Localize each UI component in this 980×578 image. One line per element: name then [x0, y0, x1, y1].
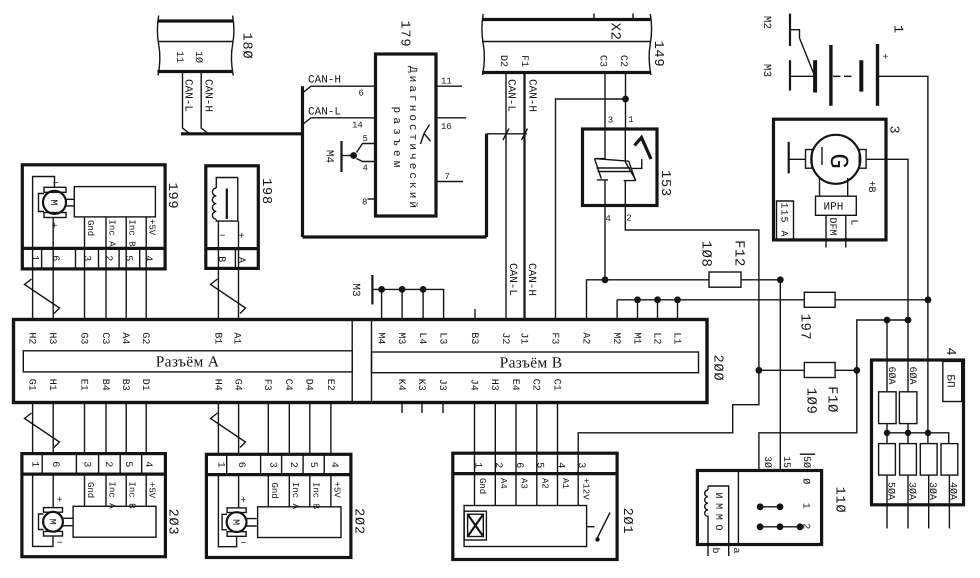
wire 202 pin1 to motor minus [218, 475, 236, 547]
wire C2 to relay pin1 [625, 73, 627, 129]
svg-text:M3: M3 [349, 283, 361, 296]
svg-text:4: 4 [142, 461, 153, 467]
svg-text:3ØA: 3ØA [905, 482, 916, 500]
svg-text:5: 5 [363, 134, 368, 144]
wire 201 pin2 [494, 474, 496, 506]
wire A4 to 199 pin5 [125, 269, 127, 320]
wire 110 pin b [707, 538, 709, 557]
immobilizer coil IMMO [705, 486, 729, 538]
svg-text:198: 198 [258, 178, 273, 205]
svg-text:18Ø: 18Ø [238, 33, 253, 60]
svg-text:H3: H3 [488, 379, 499, 391]
junction 197 battery feeder [925, 296, 932, 303]
pin 1 of 153 [628, 115, 633, 125]
svg-text:3: 3 [81, 461, 92, 467]
svg-text:A4: A4 [498, 478, 508, 489]
svg-text:M3: M3 [395, 332, 406, 344]
label 1 battery [889, 25, 904, 34]
wire M3 to battery [790, 75, 815, 77]
svg-text:Разъём В: Разъём В [500, 354, 563, 371]
svg-text:2: 2 [287, 462, 298, 468]
wire 179 pin6 CAN-H [303, 86, 376, 93]
svg-text:4: 4 [554, 462, 565, 468]
wire 179 pin14 CAN-L [303, 118, 376, 125]
label 200 [709, 355, 724, 382]
wire CAN trunk vertical left [301, 86, 304, 237]
svg-text:149: 149 [650, 41, 665, 68]
svg-text:L3: L3 [437, 332, 448, 344]
svg-text:3: 3 [608, 116, 613, 126]
wire B1 to 198 pinB [217, 268, 219, 319]
label +5V 203 [147, 482, 157, 499]
regulator IRN [816, 178, 857, 215]
label 149 [650, 41, 665, 68]
svg-text:C2: C2 [617, 55, 628, 67]
wire M2 bus corner [617, 300, 677, 320]
wire L stub [845, 215, 847, 247]
svg-text:A2: A2 [579, 332, 590, 344]
svg-text:4: 4 [363, 164, 368, 174]
label +5V 199 [147, 219, 157, 236]
svg-text:197: 197 [797, 314, 813, 341]
wire F3 to 202 pin3 [267, 403, 269, 455]
wire M3 down [401, 289, 403, 319]
svg-text:J4: J4 [467, 379, 478, 391]
label 202 [350, 508, 365, 535]
pin numbers 202 [214, 462, 339, 468]
pin letters 198 [215, 256, 246, 263]
svg-text:6: 6 [49, 255, 60, 261]
wire 201 pin1 [474, 474, 476, 506]
twisted pair mark 199 [25, 279, 60, 314]
wire D1 to 203 pin4 [145, 403, 147, 454]
wire 203 pin6 to motor plus [52, 474, 54, 507]
svg-text:1: 1 [799, 503, 810, 509]
svg-text:M3: M3 [760, 64, 772, 77]
wire H3 to 201 pin2 [494, 403, 496, 454]
svg-text:153: 153 [657, 170, 672, 197]
label BP box [943, 361, 962, 401]
wire H4 to 202 pin1 [217, 403, 219, 455]
pin 2 of 153 [626, 214, 631, 224]
wire DFM stub [825, 215, 827, 247]
diagnostic connector 179 [376, 54, 437, 216]
svg-text:E2: E2 [324, 379, 335, 391]
dashboard 201 box [453, 453, 617, 559]
svg-text:4: 4 [606, 214, 611, 224]
pin 16 of 179 [441, 122, 452, 132]
label 199 [164, 183, 179, 210]
pin 5 of 179 [363, 134, 368, 144]
svg-text:A3: A3 [519, 478, 529, 489]
label A4 201 [498, 478, 508, 489]
wire 199 motor minus to pin1 [33, 177, 55, 269]
svg-text:6: 6 [513, 462, 524, 468]
wire CAN-L D2 to J2 [503, 73, 509, 321]
twisted pair mark 202 [211, 413, 246, 448]
svg-text:7: 7 [445, 172, 450, 182]
svg-text:3ØA: 3ØA [926, 482, 937, 500]
svg-text:1: 1 [471, 462, 482, 468]
wire junction to A2 [587, 280, 606, 321]
wire G2 to 199 pin4 [145, 269, 147, 320]
svg-text:3Ø: 3Ø [761, 456, 772, 468]
svg-text:6: 6 [359, 89, 364, 99]
svg-text:G4: G4 [232, 379, 243, 391]
svg-text:M: M [47, 199, 58, 205]
stub J3 [442, 403, 444, 414]
label Inc A 199 [106, 220, 116, 248]
svg-text:2Ø3: 2Ø3 [164, 509, 179, 536]
svg-text:1Ø: 1Ø [192, 51, 203, 63]
wire 179 pin11 stub [436, 85, 462, 87]
label A1 201 [560, 478, 570, 489]
svg-text:+: + [240, 496, 246, 507]
junction C2 branch [622, 96, 629, 103]
label Inc B 199 [127, 220, 137, 248]
label 3 generator [885, 126, 900, 135]
wire CAN trunk from 180 [181, 132, 303, 135]
svg-text:H1: H1 [46, 379, 57, 391]
svg-text:2Ø1: 2Ø1 [619, 508, 634, 535]
svg-text:2ØØ: 2ØØ [709, 355, 724, 382]
label A3 201 [519, 478, 529, 489]
fuse block 4 box [872, 360, 964, 505]
wire 202 pin6 to motor plus [238, 475, 240, 508]
svg-text:5Ø: 5Ø [800, 456, 811, 468]
svg-text:8: 8 [362, 198, 367, 208]
svg-text:L: L [848, 219, 859, 225]
svg-text:M2: M2 [760, 16, 772, 29]
stub B3 top [474, 309, 476, 320]
svg-text:−: − [220, 232, 226, 243]
wire H3 to 199 pin6 [52, 269, 54, 320]
label CAN-L vertical under 180 [182, 79, 194, 112]
pin 15 of 110 [780, 456, 791, 468]
twisted pair mark 198 [211, 279, 246, 314]
wire 199 IncB pin5 [125, 217, 127, 269]
wire 179 pin7 stub [436, 181, 463, 183]
fuse 30A no2 [920, 444, 937, 529]
svg-text:1: 1 [628, 115, 633, 125]
label 153 [657, 170, 672, 197]
wire H2 to 199 pin1 [32, 269, 34, 320]
svg-text:Ø: Ø [799, 478, 810, 484]
wire 201 pin6 [515, 474, 517, 506]
controller block in 203 [73, 506, 156, 537]
wire relay pin4 to junction [604, 205, 606, 280]
relay 153 [583, 129, 658, 206]
svg-text:Gnd: Gnd [85, 220, 95, 236]
svg-text:+: + [57, 496, 63, 507]
svg-text:Inc A: Inc A [106, 220, 116, 248]
svg-text:1Ø8: 1Ø8 [697, 241, 713, 268]
display block in 201 [464, 506, 586, 547]
svg-text:−: − [57, 539, 63, 550]
ground M2 [760, 14, 790, 46]
fuse 197 [797, 292, 928, 340]
wire 179 pin8 stub [368, 198, 376, 200]
motor M of 203 [39, 496, 74, 550]
pins bottom row B [395, 379, 562, 391]
indicator lamp X in 201 [464, 511, 486, 540]
pin 3 of 153 [608, 116, 613, 126]
svg-text:J1: J1 [517, 332, 528, 344]
junction M3 [399, 286, 406, 293]
svg-text:E1: E1 [77, 379, 88, 391]
svg-text:G3: G3 [77, 332, 88, 344]
stub K4 [401, 403, 403, 414]
svg-text:2: 2 [626, 214, 631, 224]
svg-text:CAN-L: CAN-L [506, 263, 518, 296]
svg-text:11Ø: 11Ø [831, 487, 846, 514]
svg-text:2: 2 [102, 461, 113, 467]
svg-text:H4: H4 [211, 379, 222, 391]
switch symbol in 201 [587, 513, 610, 542]
svg-text:H2: H2 [26, 332, 37, 344]
junction L2 [654, 296, 661, 303]
svg-text:B3: B3 [119, 379, 130, 391]
fuse 50A [879, 444, 896, 529]
wire 202 pin5 IncB [309, 475, 311, 507]
pin 4 of 179 [363, 164, 368, 174]
label 198 [258, 178, 273, 205]
svg-text:Gnd: Gnd [269, 483, 279, 499]
wire D4 to 202 pin5 [309, 403, 311, 455]
bus inside fuse block [887, 300, 949, 444]
wire 201 pin5 [536, 474, 538, 506]
svg-text:+: + [239, 231, 245, 242]
battery 1 [815, 44, 888, 106]
svg-text:M: M [46, 519, 57, 525]
label CAN-H under 149 [525, 79, 537, 112]
wire G4 to 202 pin6 [238, 403, 240, 455]
ground M4 [323, 141, 357, 172]
svg-text:L4: L4 [416, 332, 427, 344]
wire C1 to 201 pin4 [557, 403, 559, 454]
svg-text:A1: A1 [560, 478, 570, 489]
svg-text:2: 2 [492, 462, 503, 468]
label Razyom B [500, 354, 563, 371]
junction bus battery [925, 430, 931, 436]
svg-text:6ØA: 6ØA [906, 366, 917, 384]
svg-text:16: 16 [441, 122, 452, 132]
svg-text:CAN-L: CAN-L [308, 106, 341, 118]
pin C2 of 149 [617, 55, 628, 67]
actuator 203 box [22, 454, 166, 557]
wire C3 to 199 pin2 [105, 269, 107, 320]
svg-text:14: 14 [352, 120, 363, 130]
pins bottom row A [26, 379, 335, 391]
svg-text:Inc B: Inc B [127, 220, 137, 248]
junction 60A fuse1 feed [884, 317, 891, 324]
svg-text:CAN-L: CAN-L [182, 79, 194, 112]
label Inc B 203 [127, 482, 137, 510]
svg-text:5: 5 [307, 462, 318, 468]
actuator 202 box [206, 454, 351, 557]
sensor 198 box [206, 166, 258, 269]
svg-text:5: 5 [534, 462, 545, 468]
wire 110 pin a [728, 538, 730, 557]
switch position 1 contacts [757, 503, 811, 511]
wire C2 branch to F3 [556, 99, 626, 320]
svg-text:A4: A4 [119, 332, 130, 344]
label +B [865, 180, 876, 192]
motor M of 199 [39, 179, 75, 232]
svg-text:F3: F3 [548, 332, 559, 344]
label Gnd 201 [477, 478, 487, 494]
wire 203 pin1 to motor minus [33, 474, 53, 546]
wire 203 pin5 IncB [125, 474, 127, 506]
svg-text:Inc B: Inc B [127, 482, 137, 510]
ground M3 battery [760, 60, 790, 90]
svg-text:1Ø9: 1Ø9 [802, 388, 818, 415]
svg-text:K3: K3 [415, 379, 426, 391]
svg-text:11: 11 [173, 51, 184, 63]
wire L4 down [422, 289, 424, 319]
svg-text:CAN-H: CAN-H [525, 263, 537, 296]
svg-text:Inc A: Inc A [106, 482, 116, 510]
fuse 30A no1 [900, 444, 917, 529]
label Inc A 202 [290, 482, 300, 510]
fuse F12 108 [697, 240, 780, 287]
wire C4 to 202 pin2 [288, 403, 290, 455]
wire 201 pin4 [557, 474, 559, 506]
svg-text:3: 3 [81, 255, 92, 261]
junction relay pin4 node [602, 276, 609, 283]
svg-text:2: 2 [102, 255, 113, 261]
generator G symbol [806, 135, 867, 184]
svg-text:6: 6 [49, 461, 60, 467]
wire 198 pin B [217, 221, 219, 268]
motor M of 202 [222, 496, 257, 550]
wire G3 to 199 pin3 [84, 269, 86, 320]
wire J4 to 201 pin1 [474, 403, 476, 454]
wire 180 pin10 CAN-H [201, 72, 208, 134]
pin 30 of 110 [761, 456, 772, 468]
svg-text:15: 15 [780, 456, 791, 468]
junction L1 [674, 296, 681, 303]
wire M2 to battery [790, 30, 815, 77]
label +5V 202 [331, 482, 341, 499]
svg-text:A1: A1 [231, 332, 242, 344]
wire C2 to 201 pin5 [536, 403, 538, 454]
wire 179 pin5 [357, 144, 376, 153]
svg-text:1: 1 [214, 462, 225, 468]
wire L1 down [677, 300, 679, 320]
sensor 199 box [22, 165, 165, 269]
rating 115 A box [777, 201, 794, 240]
wire CAN trunk bottom [303, 235, 487, 238]
twisted pair mark 203 [25, 413, 60, 448]
stub K3 [421, 403, 423, 414]
svg-text:+12V: +12V [581, 478, 591, 500]
wire 199 motor plus to pin6 [52, 218, 54, 269]
controller block in 199 [74, 187, 155, 217]
svg-text:CAN-H: CAN-H [525, 79, 537, 112]
wire 199 +5V pin4 [145, 217, 147, 269]
svg-text:+B: +B [865, 180, 876, 192]
wire B4 to 203 pin2 [105, 403, 107, 454]
pin 7 of 179 [445, 172, 450, 182]
junction relay pin2 with F10 [756, 367, 763, 374]
svg-text:G1: G1 [26, 379, 37, 391]
pin 14 of 179 [352, 120, 363, 130]
label 4 [942, 348, 957, 357]
wire 180 pin11 CAN-L [183, 72, 191, 134]
label +12V 201 [581, 478, 591, 500]
label DFM [826, 217, 837, 235]
label Inc A 203 [106, 482, 116, 510]
pins top row A [26, 332, 242, 344]
svg-text:5ØA: 5ØA [884, 482, 895, 500]
wire CAN-H F1 to J1 [522, 73, 528, 321]
junction F12 output [777, 276, 784, 283]
inductive sensor symbol in 198 [212, 178, 244, 243]
svg-text:L1: L1 [670, 332, 681, 344]
wire E1 to 203 pin3 [84, 403, 86, 454]
svg-text:4: 4 [328, 462, 339, 468]
label CAN-H above connector B [525, 263, 537, 296]
label 201 [619, 508, 634, 535]
wire CAN trunk vertical right [485, 134, 488, 237]
controller block in 202 [258, 507, 341, 538]
svg-text:Inc A: Inc A [290, 482, 300, 510]
svg-text:5: 5 [122, 461, 133, 467]
connector 180 [157, 16, 234, 76]
label Gnd 202 [269, 483, 279, 499]
wire F10 to ignition pin30 [759, 370, 857, 470]
ground bar in generator [789, 142, 806, 174]
svg-text:J2: J2 [499, 332, 510, 344]
pin 11 of 179 [441, 77, 452, 87]
label Razyom A [156, 354, 220, 371]
switch position 2 contacts [757, 523, 811, 530]
junction 60A fuse2 feed [905, 317, 912, 324]
junction M1 [634, 296, 641, 303]
svg-text:CAN-H: CAN-H [308, 75, 341, 87]
wire 199 IncA pin2 [105, 217, 107, 269]
svg-text:−: − [240, 539, 246, 550]
svg-text:L2: L2 [650, 332, 661, 344]
svg-text:B4: B4 [99, 379, 110, 391]
svg-text:4ØA: 4ØA [947, 482, 958, 500]
wire F12 to ignition pin15 [779, 280, 781, 470]
wire battery plus feeder [878, 76, 928, 299]
label Gnd 203 [85, 482, 95, 498]
wire E2 to 202 pin4 [330, 403, 332, 455]
pin 6 of 179 [359, 89, 364, 99]
connector 149 [482, 14, 652, 76]
wire 179 pin4 [357, 159, 376, 162]
svg-text:a: a [730, 547, 741, 553]
pin 10 of 180 [192, 51, 203, 63]
wire 202 pin2 IncA [288, 475, 290, 507]
wire 203 pin4 +5V [145, 474, 147, 506]
junction bus 50A [884, 430, 890, 436]
svg-text:ИРН: ИРН [824, 202, 844, 214]
svg-text:4: 4 [142, 255, 153, 261]
label A2 201 [539, 478, 549, 489]
svg-text:D2: D2 [497, 55, 508, 67]
svg-text:F1Ø: F1Ø [824, 386, 840, 413]
svg-text:X2: X2 [607, 23, 623, 41]
svg-text:199: 199 [164, 183, 179, 210]
svg-text:G: G [823, 153, 853, 169]
label CAN-H vertical under 180 [201, 79, 213, 112]
label CAN-H horizontal [308, 75, 341, 87]
label 179 [396, 21, 411, 48]
